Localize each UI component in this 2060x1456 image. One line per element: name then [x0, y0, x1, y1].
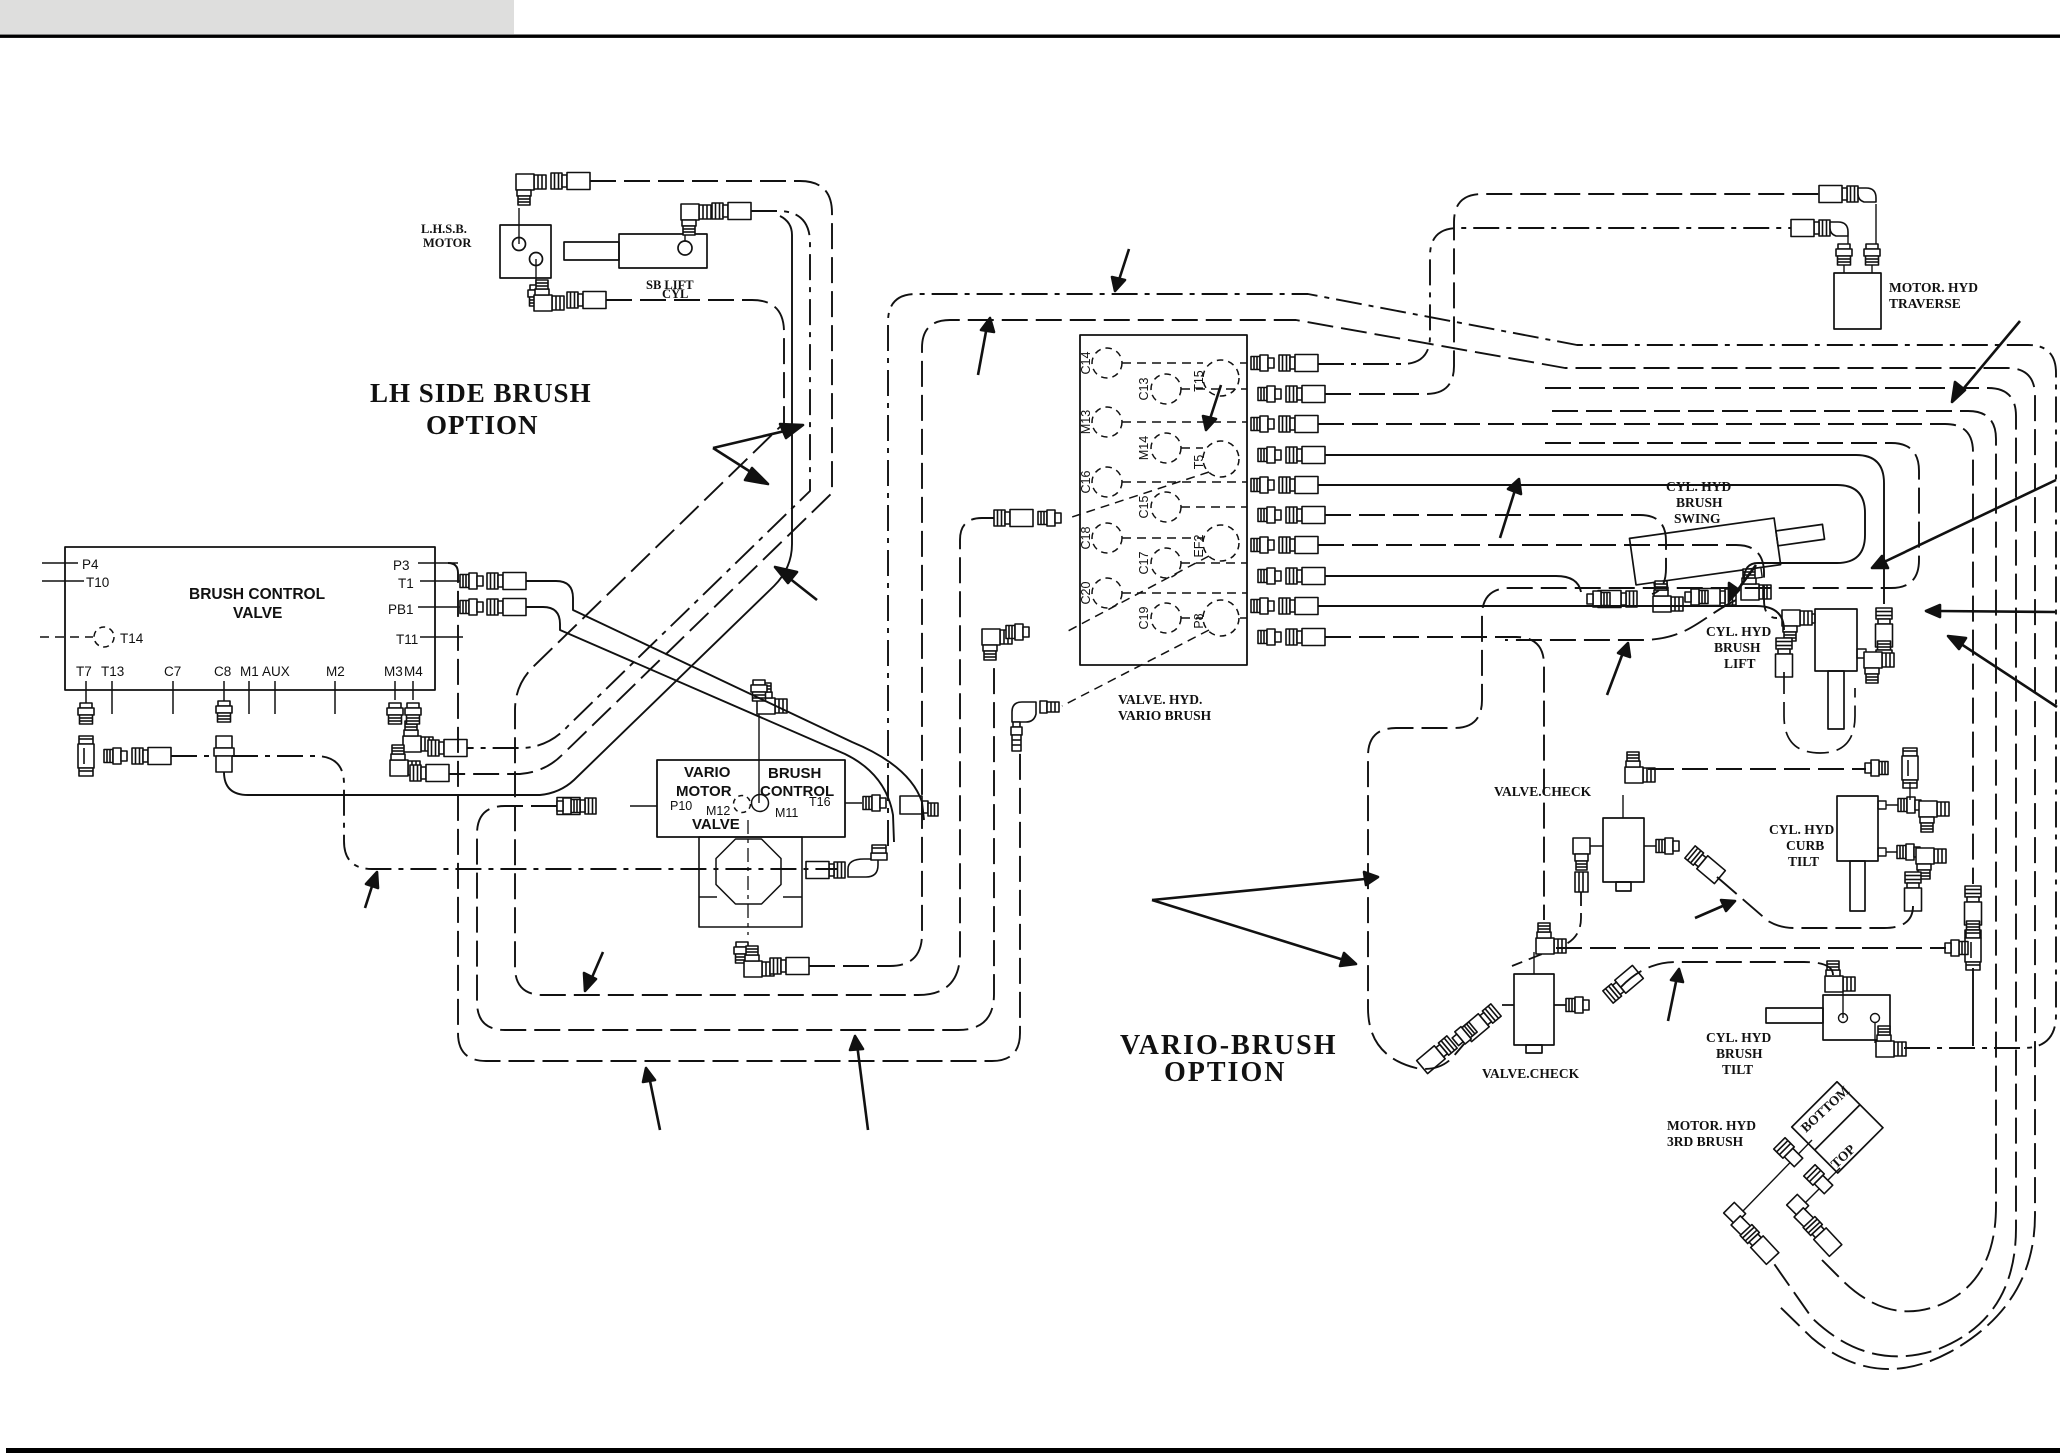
svg-text:BRUSH: BRUSH — [1676, 495, 1723, 510]
SB lift cyl — [564, 230, 707, 268]
brush tilt bottom elbow — [1876, 1026, 1906, 1057]
svg-text:LH SIDE BRUSH: LH SIDE BRUSH — [370, 378, 592, 408]
arrow inner top line — [978, 326, 987, 375]
svg-text:P4: P4 — [82, 557, 99, 572]
hose row C13 to traverse right — [1325, 194, 1819, 394]
svg-text:BRUSH: BRUSH — [1716, 1046, 1763, 1061]
left fitting pair feeding T5 — [994, 510, 1033, 527]
svg-text:TILT: TILT — [1788, 854, 1819, 869]
svg-text:BRUSH CONTROL: BRUSH CONTROL — [189, 586, 325, 603]
P10 port stub — [630, 805, 657, 807]
brush lift left elbow fitting — [1782, 610, 1812, 641]
L.H.S.B. motor label — [421, 222, 472, 250]
svg-text:CYL. HYD: CYL. HYD — [1769, 822, 1835, 837]
hose check valve top line — [1648, 768, 1866, 770]
bottom check valve top elbow — [1536, 923, 1566, 954]
arrow diag bundle — [784, 574, 817, 600]
fitting below C8 — [216, 701, 232, 722]
cyl hyd curb tilt cylinder — [1837, 796, 1898, 911]
hose PB1 to vario octagon port — [526, 607, 894, 842]
T16 fitting and elbow — [863, 795, 886, 811]
svg-text:M13: M13 — [1079, 410, 1093, 434]
hose vario bottom to outer top line and right edge — [888, 294, 2056, 1048]
manifold internal dashed row lines — [1122, 363, 1247, 618]
hose row C18 to brush lift left — [1318, 545, 1777, 618]
long arrow to brush swing — [1959, 321, 2020, 394]
hose row C15 nest — [1325, 515, 1666, 594]
vario motor brush control valve box — [657, 700, 845, 935]
svg-text:C14: C14 — [1079, 351, 1093, 374]
brush swing label — [1666, 479, 1732, 526]
svg-text:OPTION: OPTION — [1164, 1057, 1286, 1088]
svg-text:CYL. HYD: CYL. HYD — [1666, 479, 1732, 494]
union fitting below C8 — [214, 736, 234, 772]
hose row C19 to bottom check valve — [1325, 637, 1544, 920]
hose-end fitting H3 — [567, 292, 606, 309]
traverse right hose elbow — [1819, 186, 1858, 203]
fitting pair at PB1 — [460, 599, 483, 615]
fitting below T7 — [78, 703, 94, 724]
hose 3rd brush inner U — [1552, 411, 1996, 1311]
svg-text:MOTOR: MOTOR — [676, 783, 732, 800]
svg-text:P8: P8 — [1192, 613, 1206, 628]
traverse port stubs — [1844, 264, 1872, 273]
traverse left hose elbow — [1791, 220, 1830, 237]
svg-text:C13: C13 — [1137, 377, 1151, 400]
arrow curb diag — [1695, 905, 1725, 918]
svg-text:C19: C19 — [1137, 606, 1151, 629]
brush swing left port elbow fitting — [1653, 581, 1683, 612]
fitting below vario bracket — [734, 942, 750, 963]
right solid vertical — [1972, 968, 1974, 1046]
elbow fitting below LHSB motor — [528, 285, 544, 306]
port stub T1 — [420, 580, 460, 582]
L.H.S.B. motor block — [500, 208, 551, 290]
svg-text:T5: T5 — [1192, 455, 1206, 470]
arrow to brush lift fitting — [1958, 642, 2057, 707]
svg-text:VARIO: VARIO — [684, 764, 731, 781]
hose row C14 to traverse left — [1318, 228, 1791, 364]
traverse elbow drop links — [1848, 204, 1876, 244]
arrow to brush lift right — [1938, 611, 2055, 612]
hose-end fitting H2 — [712, 203, 751, 220]
svg-text:T13: T13 — [101, 664, 124, 679]
svg-text:C8: C8 — [214, 664, 231, 679]
brush tilt label — [1706, 1030, 1772, 1077]
port stub P3 — [418, 562, 458, 564]
top rule — [0, 35, 2060, 38]
manifold diagonal dashed links T5 C16 — [1069, 472, 1209, 518]
elbow below vario bracket — [744, 946, 774, 977]
hose bottom check to brush tilt — [1621, 962, 1833, 987]
hose T7 to octagon (dash-dot) — [171, 756, 838, 869]
P10 hose-end fitting pair — [557, 798, 596, 815]
hose swing S-curve — [1505, 600, 1736, 640]
fitting right of octagon — [806, 862, 845, 879]
svg-text:T16: T16 — [809, 795, 831, 809]
vario valve M12 dashed circle — [734, 796, 751, 813]
arrow outer top line — [1118, 249, 1129, 283]
hose LHSB top to bundle — [449, 181, 832, 774]
SB lift cyl label — [646, 278, 694, 301]
vario option arrow 1 — [1152, 879, 1365, 900]
right side tee with fittings (mid) — [1965, 886, 1982, 925]
svg-text:T1: T1 — [398, 576, 414, 591]
svg-text:VALVE: VALVE — [692, 816, 740, 833]
svg-text:CYL: CYL — [662, 287, 688, 301]
manifold label — [1118, 692, 1212, 723]
svg-text:P10: P10 — [670, 799, 692, 813]
hose P8 to inner top line and right side — [809, 320, 2035, 1369]
svg-text:BRUSH: BRUSH — [1714, 640, 1761, 655]
svg-text:M11: M11 — [775, 806, 798, 820]
brush lift right bottom elbow — [1864, 652, 1894, 683]
manifold diagonal dashed link P8 C19 — [1062, 630, 1209, 706]
bottom check valve left fittings — [1461, 1003, 1502, 1041]
check valve right fittings — [1656, 838, 1679, 854]
hose LHSB bottom to T5 circuit — [515, 300, 994, 995]
svg-text:C18: C18 — [1079, 526, 1093, 549]
port stub P4 — [42, 562, 78, 564]
brush lift left lower fitting — [1776, 638, 1793, 677]
3rd brush labels rotated — [1798, 1083, 1858, 1171]
port stub PB1 — [418, 606, 460, 608]
manifold rotated port labels — [1079, 351, 1206, 629]
motor hyd traverse box — [1834, 273, 1881, 329]
3rd brush top port fitting chain — [1803, 1168, 1840, 1205]
svg-text:TILT: TILT — [1722, 1062, 1753, 1077]
port stub T14 (dashed) — [40, 636, 93, 638]
arrow traverse line — [1500, 487, 1516, 538]
traverse right port fitting — [1864, 244, 1880, 265]
port stub T11 — [420, 636, 463, 638]
header gray tab — [0, 0, 514, 34]
svg-text:C7: C7 — [164, 664, 181, 679]
svg-text:T11: T11 — [396, 632, 418, 647]
svg-text:OPTION: OPTION — [426, 410, 539, 440]
tee on line above curb tilt — [1902, 748, 1918, 788]
arrow bottom line 2 — [857, 1044, 868, 1130]
svg-text:BRUSH: BRUSH — [768, 765, 821, 782]
arrow nest left — [1734, 565, 1756, 595]
T16 port stub — [845, 802, 862, 804]
svg-text:C17: C17 — [1137, 551, 1151, 574]
svg-text:MOTOR. HYD: MOTOR. HYD — [1667, 1118, 1756, 1133]
fittings below M3 — [387, 703, 403, 724]
hose C8 down and diagonal up — [224, 216, 792, 795]
octagon crosshair — [747, 820, 749, 935]
elbow above vario valve — [757, 683, 787, 714]
svg-text:C16: C16 — [1079, 470, 1093, 493]
fittings below M4 — [405, 703, 421, 724]
tee drop to curb tilt — [1909, 782, 1911, 800]
svg-text:PB1: PB1 — [388, 602, 414, 617]
traverse left port fitting — [1836, 244, 1852, 265]
manifold right fitting pairs rows 1-10 — [1251, 355, 1325, 646]
svg-text:CYL. HYD: CYL. HYD — [1706, 1030, 1772, 1045]
LH SIDE BRUSH OPTION title — [370, 378, 592, 440]
svg-text:MOTOR: MOTOR — [423, 236, 472, 250]
svg-text:VALVE.CHECK: VALVE.CHECK — [1494, 784, 1592, 799]
svg-text:C15: C15 — [1137, 495, 1151, 518]
elbow fitting above LHSB motor — [516, 174, 546, 205]
hose P10 to EF2 elbow — [477, 664, 994, 1030]
arrow swing bottom — [1607, 650, 1624, 695]
left elbow fitting feeding P8 — [1011, 701, 1059, 751]
svg-text:VALVE: VALVE — [233, 605, 282, 622]
bottom port ticks T7 T13 C7 C8 M1 AUX M2 M3 M4 — [85, 681, 87, 714]
left elbow feeding EF2 — [982, 629, 1012, 660]
port stub T10 — [42, 580, 84, 582]
svg-text:VARIO BRUSH: VARIO BRUSH — [1118, 708, 1212, 723]
curb tilt label — [1769, 822, 1835, 869]
svg-text:SWING: SWING — [1674, 511, 1721, 526]
elbow fitting above SB lift cyl — [681, 204, 711, 235]
svg-text:T14: T14 — [120, 631, 144, 646]
curb tilt bottom-right fitting — [1897, 844, 1920, 860]
arrow bottom line 1 — [649, 1076, 660, 1130]
svg-text:TRAVERSE: TRAVERSE — [1889, 296, 1961, 311]
hose check diag to curb bottom — [1717, 877, 1913, 928]
bottom rule — [6, 1448, 2060, 1453]
traverse label — [1889, 280, 1978, 311]
hose T1 to T16 — [526, 581, 924, 820]
svg-text:3RD BRUSH: 3RD BRUSH — [1667, 1134, 1744, 1149]
arrow near vario left — [590, 952, 603, 982]
arrow C8 line — [365, 880, 374, 908]
fitting pair at T1 — [460, 573, 483, 589]
elbow right of octagon turning up — [848, 845, 887, 877]
hose 3rd brush outer U — [1545, 388, 2016, 1356]
hose row C17 to swing left — [1325, 576, 1581, 592]
svg-text:T7: T7 — [76, 664, 92, 679]
bottom check valve right fittings — [1566, 997, 1589, 1013]
brush swing right port fittings — [1741, 569, 1771, 600]
svg-text:MOTOR. HYD: MOTOR. HYD — [1889, 280, 1978, 295]
brush control valve labels — [189, 586, 325, 622]
svg-text:M3: M3 — [384, 664, 403, 679]
svg-text:M12: M12 — [706, 804, 730, 818]
hose vario big loop — [1368, 443, 1919, 1069]
tee fitting below T7 — [78, 736, 94, 776]
svg-text:VALVE.CHECK: VALVE.CHECK — [1482, 1066, 1580, 1081]
svg-text:CYL. HYD: CYL. HYD — [1706, 624, 1772, 639]
svg-text:M1: M1 — [240, 664, 259, 679]
brush tilt top elbow — [1825, 961, 1855, 992]
hose SB lift to M3 — [467, 211, 810, 748]
check valve left fittings — [1573, 838, 1590, 892]
port T14 circle — [94, 627, 114, 647]
manifold port circles — [1092, 348, 1239, 636]
hose-end fitting right of vario bottom — [770, 958, 809, 975]
cyl hyd brush swing cylinder — [1630, 512, 1829, 595]
hose P3 to bottom check valve — [448, 563, 1020, 1061]
hose-end fitting right of T7 tee — [104, 748, 127, 764]
vario valve mount bracket — [699, 837, 802, 927]
brush lift label — [1706, 624, 1772, 671]
svg-text:C20: C20 — [1079, 581, 1093, 604]
brush lift U hose left leg — [1784, 672, 1855, 753]
svg-text:T10: T10 — [86, 575, 109, 590]
hose row C20 to brush lift lower left — [1318, 606, 1784, 630]
hose row M14 nest — [1325, 455, 1884, 604]
long arrow to brush lift top — [1884, 480, 2056, 562]
brush control valve body — [65, 547, 435, 690]
brush lift right fitting — [1876, 608, 1893, 647]
check valve top elbow — [1625, 752, 1655, 783]
vario valve M11 circle — [752, 795, 769, 812]
svg-text:M4: M4 — [404, 664, 423, 679]
cyl hyd brush tilt cylinder — [1766, 990, 1890, 1043]
svg-text:CURB: CURB — [1786, 838, 1824, 853]
3rd brush label — [1667, 1118, 1756, 1149]
hose mid right horizontal — [1556, 947, 1946, 949]
cyl hyd brush lift cylinder — [1806, 609, 1866, 729]
svg-text:LIFT: LIFT — [1724, 656, 1756, 671]
hose-end fitting H1 — [551, 173, 590, 190]
vario valve pilot line up — [758, 700, 760, 803]
vario valve octagon — [716, 839, 781, 904]
vario valve labels — [676, 764, 834, 833]
hose row C16 nest — [1318, 485, 1865, 580]
3rd brush bottom port fitting chain — [1742, 1140, 1812, 1212]
hose row M13 vario loop — [1318, 424, 1973, 884]
arrow pair LH option — [713, 430, 789, 448]
svg-text:AUX: AUX — [262, 664, 290, 679]
svg-text:P3: P3 — [393, 558, 410, 573]
arrow brush tilt line — [1668, 977, 1677, 1021]
svg-text:VALVE. HYD.: VALVE. HYD. — [1118, 692, 1202, 707]
arrow slope line — [1209, 385, 1221, 422]
VARIO-BRUSH OPTION title — [1120, 1030, 1338, 1088]
manifold diagonal dashed link EF2 C17 — [1068, 556, 1209, 631]
svg-text:M2: M2 — [326, 664, 345, 679]
svg-text:L.H.S.B.: L.H.S.B. — [421, 222, 467, 236]
curb tilt top-right fitting — [1898, 797, 1921, 813]
svg-text:M14: M14 — [1137, 436, 1151, 460]
vario option arrow 2 — [1152, 900, 1344, 960]
